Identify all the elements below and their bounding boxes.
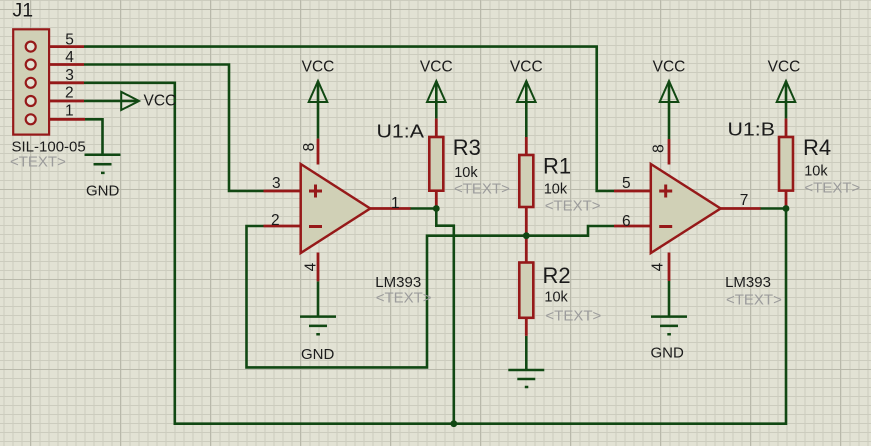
svg-text:R2: R2 (543, 263, 571, 288)
svg-text:VCC: VCC (510, 59, 543, 76)
svg-text:<TEXT>: <TEXT> (804, 180, 860, 197)
svg-text:4: 4 (65, 49, 74, 66)
svg-text:4: 4 (303, 262, 320, 271)
svg-text:GND: GND (86, 183, 120, 200)
svg-text:3: 3 (272, 175, 281, 192)
svg-text:VCC: VCC (302, 59, 335, 76)
svg-text:<TEXT>: <TEXT> (545, 198, 601, 215)
svg-text:R4: R4 (803, 135, 831, 160)
svg-text:U1:A: U1:A (377, 122, 425, 142)
svg-text:GND: GND (651, 345, 685, 362)
svg-text:<TEXT>: <TEXT> (726, 292, 782, 309)
svg-text:VCC: VCC (768, 59, 801, 76)
svg-text:VCC: VCC (420, 59, 453, 76)
svg-text:10k: 10k (544, 182, 568, 198)
svg-text:J1: J1 (13, 0, 34, 22)
svg-text:<TEXT>: <TEXT> (454, 181, 510, 198)
svg-text:<TEXT>: <TEXT> (10, 154, 66, 171)
svg-text:1: 1 (391, 195, 400, 212)
svg-text:6: 6 (622, 213, 631, 230)
svg-text:5: 5 (622, 175, 631, 192)
svg-text:LM393: LM393 (725, 274, 771, 291)
svg-text:5: 5 (65, 32, 74, 49)
svg-text:VCC: VCC (653, 59, 686, 76)
svg-text:10k: 10k (804, 164, 828, 180)
svg-text:U1:B: U1:B (728, 120, 776, 140)
svg-text:2: 2 (271, 212, 280, 229)
svg-text:3: 3 (65, 67, 74, 84)
svg-text:10k: 10k (454, 165, 478, 181)
svg-text:4: 4 (650, 262, 667, 271)
svg-text:R3: R3 (453, 135, 481, 160)
svg-text:<TEXT>: <TEXT> (545, 308, 601, 325)
svg-text:10k: 10k (544, 290, 568, 306)
svg-text:<TEXT>: <TEXT> (376, 290, 432, 307)
svg-text:1: 1 (65, 103, 74, 120)
svg-text:8: 8 (651, 144, 668, 153)
svg-text:7: 7 (740, 192, 749, 209)
svg-text:LM393: LM393 (375, 274, 421, 291)
svg-text:GND: GND (301, 346, 335, 363)
svg-text:8: 8 (301, 143, 318, 152)
svg-text:2: 2 (65, 85, 74, 102)
svg-text:VCC: VCC (144, 93, 177, 110)
svg-text:R1: R1 (543, 154, 571, 179)
